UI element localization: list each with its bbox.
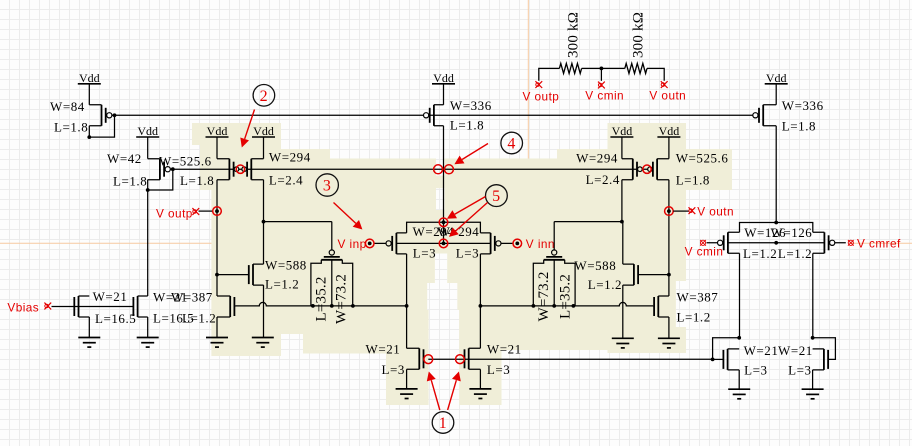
label M14 W=387: [677, 290, 719, 305]
label M3 L=1.8: [180, 173, 214, 188]
port Voutn top: [661, 81, 668, 88]
wire cap right gate stem: [553, 222, 555, 251]
wire M18 source to ground: [147, 317, 149, 338]
junction node B: [620, 220, 624, 224]
port Vcmin right: [700, 240, 706, 246]
svg-text:V outn: V outn: [649, 89, 686, 103]
wire M10 drain down: [479, 254, 481, 306]
svg-text:L=2.4: L=2.4: [269, 173, 303, 188]
svg-text:V outp: V outp: [156, 207, 193, 221]
annotation arrow 1a: [427, 372, 440, 411]
label M4 W=294: [269, 150, 311, 165]
wire M2 drain down: [147, 180, 149, 296]
transistor M1 PMOS W=84: [89, 105, 114, 126]
node pair gate marker right: [643, 165, 651, 173]
wire Vdd to M7 source: [621, 137, 623, 159]
label Voutp top: [523, 90, 560, 104]
label M20 L=1.2: [778, 246, 812, 261]
label M6 W=336: [782, 98, 824, 113]
label M19 L=1.2: [743, 246, 777, 261]
junction M22 drain: [811, 336, 815, 340]
wire Vdd to M8 source: [668, 137, 670, 159]
svg-text:L=1.8: L=1.8: [54, 120, 88, 135]
junction M21 gate: [711, 358, 715, 362]
annotation arrow 2: [240, 110, 254, 148]
annotation arrow 1b: [448, 372, 461, 411]
junction rail cap right: [351, 304, 355, 308]
svg-text:Vbias: Vbias: [7, 301, 39, 315]
svg-text:Vdd: Vdd: [612, 124, 633, 138]
wire Vdd to M5 source: [443, 84, 445, 105]
label R2 300 kOhm: [630, 12, 646, 58]
resistor R1 300k: [559, 63, 581, 73]
wire M16 source to ground: [479, 369, 481, 389]
wire cascode gate line: [173, 168, 650, 170]
node marker mid: [439, 239, 448, 248]
junction M1 gate: [113, 113, 117, 117]
wire M22 diode loop: [813, 338, 836, 360]
wire resistor net left: [539, 68, 560, 80]
wire Vdd to M4 source: [263, 137, 265, 159]
label Vcmin top: [585, 89, 624, 103]
wire M16 drain up: [479, 306, 481, 348]
label M8 L=1.8: [676, 173, 710, 188]
node pair gate marker left: [236, 165, 244, 173]
label M5 W=336: [450, 98, 492, 113]
transistor M16 NMOS tail right W=21: [465, 348, 481, 369]
label Vcmref: [857, 237, 901, 251]
label M7 L=2.4: [586, 172, 620, 187]
label M5 L=1.8: [450, 118, 484, 133]
sheet guide line vertical: [527, 0, 529, 159]
svg-text:W=21: W=21: [366, 342, 401, 357]
transistor M8 PMOS W=525.6: [648, 159, 669, 180]
svg-text:L=1.8: L=1.8: [450, 118, 484, 133]
junction M2 gate: [171, 167, 175, 171]
label M2 L=1.8: [113, 174, 147, 189]
label M7 W=294: [576, 151, 618, 166]
ground M11: [252, 338, 274, 348]
wire M14 source to ground: [668, 317, 670, 338]
junction rail cap2 mid: [552, 304, 556, 308]
wire M13 source to ground: [622, 285, 624, 338]
power Vdd M8: [657, 124, 680, 138]
wire right block common source: [740, 223, 813, 233]
transistor M18 NMOS W=387 overlap: [133, 296, 147, 317]
wire M12 source to ground: [216, 317, 218, 338]
ground M12: [206, 338, 228, 348]
wire M15 drain up: [406, 306, 408, 348]
ground M18: [137, 338, 159, 348]
junction rail cap2 right: [572, 304, 576, 308]
label M12 L overlapping: [153, 311, 216, 326]
label M4 L=2.4: [269, 173, 303, 188]
wire cap gate stem: [331, 222, 333, 251]
annotation circle 3: [316, 174, 338, 196]
label cap L=35.2 left: [313, 276, 329, 321]
label M22 L=3: [788, 363, 811, 378]
transistor M17 NMOS W=21 L=16.5: [74, 296, 89, 317]
svg-text:Vdd: Vdd: [207, 124, 228, 138]
ground M17: [78, 338, 100, 348]
junction center bias: [442, 167, 446, 171]
label M21 W=21 overlapping: [744, 343, 813, 358]
svg-text:V inp: V inp: [338, 237, 367, 251]
svg-text:L=16.5: L=16.5: [95, 311, 136, 326]
transistor M14 NMOS W=387: [654, 296, 669, 317]
power Vdd M7: [610, 124, 633, 138]
wire cap right center lead: [553, 260, 555, 306]
wire M11 drain up: [263, 222, 265, 265]
svg-text:V outp: V outp: [523, 90, 560, 104]
svg-text:V cmref: V cmref: [857, 237, 901, 251]
port Vbias: [44, 303, 133, 310]
junction right block mid: [774, 241, 778, 245]
mos cap left W=73.2 L=35.2: [311, 250, 353, 306]
junction rail cap2 left: [532, 304, 536, 308]
svg-text:Vdd: Vdd: [137, 124, 158, 138]
svg-text:W=126: W=126: [771, 225, 813, 240]
label M9 L=3: [413, 246, 436, 261]
label Vinn: [526, 237, 555, 251]
label M13 L=1.2: [588, 277, 622, 292]
label M3 W=525.6: [159, 154, 212, 169]
transistor M5 PMOS W=336: [424, 105, 444, 126]
svg-text:3: 3: [323, 178, 332, 195]
svg-text:W=336: W=336: [782, 98, 824, 113]
wire Vcmin drop: [600, 68, 602, 80]
label M6 L=1.8: [782, 119, 816, 134]
label M8 W=525.6: [676, 151, 729, 166]
label Vbias: [7, 301, 39, 315]
label M10 L=3: [456, 246, 479, 261]
label M13 W=588: [574, 258, 616, 273]
junction right block tail: [774, 221, 778, 225]
ground M13: [612, 338, 634, 348]
transistor M6 PMOS W=336: [753, 105, 776, 126]
wire input pair common source: [407, 222, 481, 233]
wire M6 drain down: [775, 126, 777, 223]
junction M1 drain: [87, 135, 91, 139]
label R1 300 kOhm: [565, 12, 581, 58]
transistor M13 NMOS W=588: [623, 264, 669, 285]
junction rail cap mid: [330, 304, 334, 308]
transistor M3 PMOS W=525.6: [217, 159, 239, 180]
wire cap center lead: [331, 260, 333, 306]
svg-text:300 kΩ: 300 kΩ: [565, 12, 581, 58]
svg-text:W=387: W=387: [677, 290, 719, 305]
svg-text:5: 5: [492, 188, 501, 205]
label M17 L=16.5: [95, 311, 136, 326]
junction rail cap left: [311, 304, 315, 308]
wire M22 source to ground: [812, 370, 814, 389]
wire Vdd to M6 source: [775, 84, 777, 105]
svg-text:L=3: L=3: [744, 363, 767, 378]
svg-text:W=294: W=294: [438, 224, 480, 239]
label cap W=73.2 left: [334, 274, 350, 324]
transistor M10 PMOS input right W=294: [480, 233, 513, 254]
label M1 W=84: [50, 99, 85, 114]
port Vinn: [513, 239, 522, 248]
label Voutp left: [156, 207, 193, 221]
svg-text:2: 2: [260, 88, 269, 105]
transistor M15 NMOS tail left W=21: [407, 348, 424, 369]
svg-text:V cmin: V cmin: [685, 245, 724, 259]
annotation arrow 3: [334, 203, 363, 230]
wire M7 drain down: [621, 180, 623, 222]
wire M14 gate lead: [652, 306, 655, 308]
label M14 L=1.2: [677, 310, 711, 325]
svg-text:4: 4: [507, 136, 516, 153]
wire M4 drain down: [263, 180, 265, 222]
label M12 W=387 overlapping: [153, 290, 213, 305]
node marker tail gate right: [456, 355, 465, 364]
label Vcmin right: [685, 245, 724, 259]
annotation circle 5: [486, 185, 508, 207]
annotation circle 1: [432, 412, 454, 434]
wire M8 drain to Voutn: [668, 180, 670, 296]
node marker tail: [439, 218, 448, 227]
port Vinp: [365, 239, 374, 248]
yellow highlight regions: [192, 123, 732, 405]
svg-text:Vdd: Vdd: [79, 71, 100, 85]
svg-text:W=294: W=294: [576, 151, 618, 166]
wire M12 gate lead: [233, 306, 236, 308]
label M2 W=42: [107, 151, 142, 166]
transistor M12 NMOS W=387: [217, 296, 234, 317]
mos cap right W=73.2 L=35.2: [533, 250, 575, 306]
label M16 L=3: [487, 362, 510, 377]
junction node A: [262, 220, 266, 224]
svg-text:L=35.2: L=35.2: [557, 274, 573, 319]
svg-text:W=21: W=21: [93, 289, 128, 304]
annotation circle 2: [253, 85, 275, 107]
svg-text:V outn: V outn: [697, 205, 734, 219]
wire M13 drain up: [622, 222, 624, 265]
svg-text:L=3: L=3: [788, 363, 811, 378]
svg-text:L=1.2: L=1.2: [588, 277, 622, 292]
wire right block mid line: [728, 242, 825, 244]
annotation arrow 5a: [447, 197, 486, 219]
svg-text:W=42: W=42: [107, 151, 142, 166]
svg-text:W=525.6: W=525.6: [159, 154, 212, 169]
svg-text:L=1.8: L=1.8: [676, 173, 710, 188]
wire M9 drain down: [406, 254, 408, 306]
svg-text:W=84: W=84: [50, 99, 85, 114]
svg-text:W=336: W=336: [450, 98, 492, 113]
svg-text:L=1.8: L=1.8: [782, 119, 816, 134]
wire right rail: [480, 302, 653, 306]
svg-text:L=35.2: L=35.2: [313, 276, 329, 321]
svg-text:L=3: L=3: [382, 362, 405, 377]
svg-text:300 kΩ: 300 kΩ: [630, 12, 646, 58]
svg-text:W=525.6: W=525.6: [676, 151, 729, 166]
sheet guide line horizontal: [0, 242, 912, 244]
svg-text:Vdd: Vdd: [253, 124, 274, 138]
label M11 W=588: [265, 258, 307, 273]
label Voutn right: [697, 205, 734, 219]
svg-text:L=1.2: L=1.2: [182, 311, 216, 326]
transistor M7 PMOS W=294: [622, 159, 642, 180]
resistor R2 300k: [625, 63, 647, 73]
ground M15: [396, 389, 418, 399]
power Vdd M5 center: [432, 71, 455, 85]
svg-text:1: 1: [439, 415, 448, 432]
label M21 L=3: [744, 363, 767, 378]
wire M21 diode loop: [713, 338, 740, 360]
transistor M11 NMOS W=588: [217, 264, 264, 285]
junction rail M9 drain: [405, 304, 409, 308]
node marker tail gate left: [424, 355, 433, 364]
label M16 W=21: [487, 342, 522, 357]
junction Voutp gate tap: [215, 273, 219, 277]
svg-text:L=3: L=3: [413, 246, 436, 261]
svg-text:W=588: W=588: [265, 258, 307, 273]
junction M21 drain: [737, 336, 741, 340]
svg-text:V inn: V inn: [526, 237, 555, 251]
wire Vdd to M2 source: [147, 137, 149, 159]
svg-text:W=588: W=588: [574, 258, 616, 273]
transistor M2 PMOS W=42: [148, 159, 173, 180]
wire M21 source to ground: [738, 370, 740, 389]
transistor M22 NMOS W=21 diode: [813, 349, 829, 370]
wire tail gates line: [428, 358, 712, 360]
transistor M20 PMOS W=126 right: [813, 232, 846, 253]
ground M21: [728, 389, 750, 399]
port Voutn: [665, 207, 696, 216]
label cap W=73.2 right: [536, 271, 552, 321]
transistor M21 NMOS W=21 diode: [713, 349, 740, 370]
label M17 W=21: [93, 289, 128, 304]
label Vinp: [338, 237, 367, 251]
svg-text:W=387: W=387: [171, 290, 213, 305]
svg-text:L=1.8: L=1.8: [180, 173, 214, 188]
label M15 L=3: [382, 362, 405, 377]
junction Vcmin top: [600, 67, 604, 71]
annotation circle 4: [501, 132, 523, 154]
ground M22: [802, 389, 824, 399]
svg-text:L=1.2: L=1.2: [778, 246, 812, 261]
annotation arrow 4: [454, 144, 488, 165]
svg-text:W=73.2: W=73.2: [334, 274, 350, 324]
wire M17 source to ground: [88, 317, 90, 338]
wire M19 drain down: [739, 253, 741, 337]
transistor M9 PMOS input left W=294: [374, 233, 406, 254]
power Vdd M1: [78, 71, 101, 85]
svg-text:W=21: W=21: [778, 343, 813, 358]
svg-text:Vdd: Vdd: [433, 71, 454, 85]
port Voutp left: [192, 207, 221, 216]
label M11 L=1.2: [265, 277, 299, 292]
junction Voutn gate tap: [667, 273, 671, 277]
transistor M4 PMOS W=294: [242, 159, 264, 180]
svg-text:L=2.4: L=2.4: [586, 172, 620, 187]
port Voutp top: [535, 81, 542, 88]
wire left rail: [235, 302, 406, 306]
wire M15 source to ground: [406, 369, 408, 389]
label M1 L=1.8: [54, 120, 88, 135]
annotation arrow 5b: [449, 203, 488, 237]
svg-text:L=1.2: L=1.2: [265, 277, 299, 292]
wire node A to cap gate: [264, 221, 332, 223]
label M15 W=21: [366, 342, 401, 357]
node marker pair center: [434, 165, 454, 174]
power Vdd M6 right: [765, 71, 788, 85]
svg-text:L=3: L=3: [456, 246, 479, 261]
label M9 W=294 overlapping: [413, 224, 480, 239]
svg-text:L=1.2: L=1.2: [677, 310, 711, 325]
transistor M19 PMOS W=126 left: [707, 232, 740, 253]
svg-text:W=21: W=21: [487, 342, 522, 357]
svg-text:L=1.2: L=1.2: [743, 246, 777, 261]
wire M5 drain down center: [443, 126, 445, 244]
svg-text:Vdd: Vdd: [766, 71, 787, 85]
ground M16: [469, 389, 491, 399]
port Vcmin top: [598, 82, 605, 89]
power Vdd M4: [252, 124, 275, 138]
wire between resistors: [582, 67, 625, 69]
wire input pair mid line: [396, 242, 490, 244]
junction rail M10 drain: [479, 304, 483, 308]
wire node B to cap gate: [554, 221, 622, 223]
wire Vdd to M1 source: [88, 84, 90, 105]
wire M1 drain to node: [89, 115, 114, 137]
svg-text:W=21: W=21: [744, 343, 779, 358]
wire M11 source to ground: [263, 285, 265, 337]
svg-text:W=73.2: W=73.2: [536, 271, 552, 321]
svg-text:V cmin: V cmin: [585, 89, 624, 103]
svg-text:W=294: W=294: [269, 150, 311, 165]
label cap L=35.2 right: [557, 274, 573, 319]
wire M3 drain to Voutp: [216, 180, 218, 296]
svg-text:Vdd: Vdd: [659, 124, 680, 138]
power Vdd M3: [206, 124, 229, 138]
wire resistor net right: [647, 68, 664, 80]
wire Vdd to M3 source: [216, 137, 218, 159]
junction M2 drain: [146, 188, 150, 192]
label M19 W=126 overlapping: [744, 225, 812, 240]
wire M20 drain down: [812, 253, 814, 337]
power Vdd M2: [136, 124, 159, 138]
port Vcmref: [848, 240, 854, 246]
svg-text:L=1.8: L=1.8: [113, 174, 147, 189]
label Voutn top: [649, 89, 686, 103]
wire M2 gate loop: [148, 169, 173, 190]
wire bias line top: [115, 114, 754, 116]
svg-text:L=3: L=3: [487, 362, 510, 377]
ground M14: [658, 338, 680, 348]
